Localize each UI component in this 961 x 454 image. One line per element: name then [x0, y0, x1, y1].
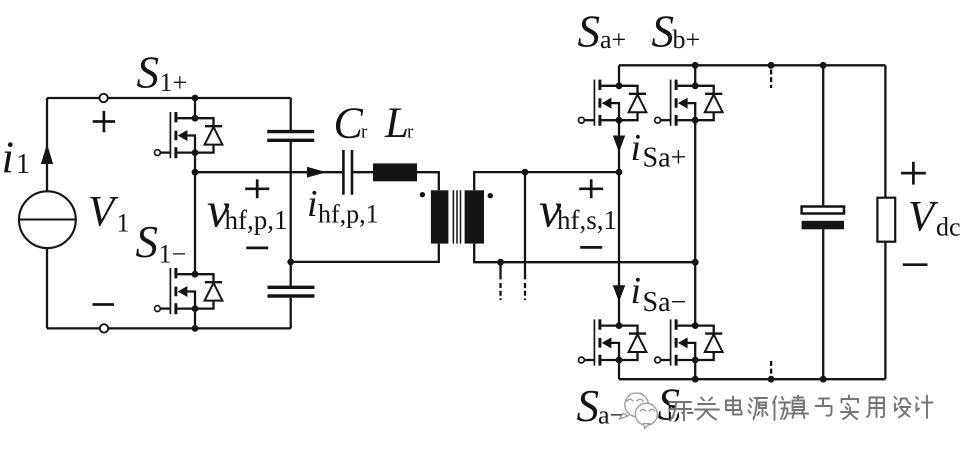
wire S1+ drain [194, 98, 196, 118]
wire leg b lower [694, 360, 696, 379]
junction dot top rail continuation [768, 62, 775, 69]
capacitor upper plates [267, 132, 314, 141]
junction dot bottom rail continuation [768, 376, 775, 383]
wire S1- source to bottom rail [194, 309, 196, 329]
svg-text:i: i [2, 132, 15, 182]
wire left vertical [46, 98, 48, 328]
minus sign V1 [93, 303, 115, 306]
wire Lr to transformer [417, 172, 439, 190]
wire bottom tap stub [499, 262, 501, 279]
polarity dot primary [420, 192, 425, 197]
wire split-cap leg lower [290, 298, 292, 329]
inductor Lr [373, 163, 417, 181]
svg-text:i: i [631, 127, 642, 169]
wire leg a upper [618, 65, 620, 86]
wire split-cap leg middle [290, 142, 292, 286]
junction dot bottom rail [192, 325, 199, 332]
svg-text:S: S [652, 7, 675, 57]
svg-text:b+: b+ [673, 25, 701, 54]
source V1 [19, 191, 76, 248]
wire primary return [291, 244, 439, 262]
svg-text:a+: a+ [600, 25, 626, 54]
svg-text:i: i [307, 183, 318, 225]
terminal circle bottom-left [100, 324, 108, 332]
svg-text:V: V [88, 189, 119, 236]
wire output cap leg lower [822, 229, 824, 379]
wire split-cap leg upper [290, 98, 292, 130]
svg-text:S: S [136, 217, 159, 267]
svg-text:V: V [908, 194, 939, 241]
plus sign vhfs1 [579, 179, 603, 198]
svg-text:S: S [577, 381, 600, 431]
transistor S1- [155, 268, 223, 314]
wire load leg lower [884, 242, 886, 380]
junction dot bottom rail leg b [692, 376, 699, 383]
wire leg a lower [618, 360, 620, 379]
svg-text:Sa−: Sa− [643, 287, 687, 318]
wire bottom continuation dashed [770, 361, 772, 375]
junction dot cap midpoint [287, 259, 294, 266]
svg-text:1−: 1− [159, 239, 187, 268]
svg-text:r: r [407, 121, 414, 142]
wire top-left rail [47, 97, 291, 99]
junction dot secondary bottom tap [497, 259, 504, 266]
capacitor lower plates [268, 287, 315, 296]
svg-text:a−: a− [598, 401, 624, 430]
transformer primary winding [431, 190, 449, 243]
current arrow iSa- [613, 285, 625, 302]
transistor Sb- [655, 319, 723, 365]
resistor load [877, 198, 895, 242]
wire right bottom rail [619, 378, 885, 380]
transistor Sa- [579, 319, 647, 365]
capacitor output top plate [802, 207, 844, 214]
wire output cap leg upper [822, 65, 824, 205]
svg-text:L: L [384, 100, 409, 147]
wire phase tap dashed [524, 283, 526, 300]
wire bottom-left rail [47, 327, 291, 329]
junction dot top rail cap leg [820, 62, 827, 69]
minus sign vhfp1 [246, 247, 268, 250]
plus sign vhfp1 [245, 179, 269, 198]
wire leg b upper [694, 65, 696, 86]
transistor Sa+ [579, 80, 647, 126]
junction dot top rail [192, 95, 199, 102]
plus sign Vdc [901, 162, 926, 185]
wire secondary top [474, 172, 619, 190]
junction dot midpoint [192, 169, 199, 176]
svg-text:1+: 1+ [160, 68, 188, 97]
terminal circle top-left [99, 94, 107, 102]
minus sign vhfs1 [580, 246, 602, 249]
current arrow ihfp1 [307, 167, 327, 178]
transistor S1+ [155, 112, 223, 158]
svg-text:dc: dc [936, 213, 961, 242]
wire right top rail [619, 64, 885, 66]
svg-text:C: C [334, 99, 364, 148]
capacitor output bottom plate [802, 221, 844, 230]
junction dot bottom rail cap leg [820, 376, 827, 383]
minus sign Vdc [903, 263, 928, 266]
wire phase tap vertical [524, 172, 526, 279]
junction dot top rail leg b [692, 62, 699, 69]
svg-text:r: r [361, 121, 368, 142]
transformer secondary winding [465, 190, 484, 243]
junction dot node b [692, 259, 699, 266]
plus sign V1 [93, 111, 115, 132]
wire Cr to Lr [353, 171, 373, 173]
transistor Sb+ [655, 80, 723, 126]
svg-text:S: S [578, 7, 601, 57]
watermark logo bubble 2 [635, 403, 657, 428]
junction dot node a [616, 169, 623, 176]
current arrow iSa+ [613, 136, 625, 153]
svg-text:S: S [137, 47, 160, 97]
svg-text:hf,s,1: hf,s,1 [557, 205, 617, 235]
wire bottom tap dashed [499, 283, 501, 300]
watermark logo bubble 1 [620, 393, 649, 419]
wire leg b middle [694, 120, 696, 325]
junction dot secondary top tap [522, 169, 529, 176]
current arrow i1 [41, 144, 53, 164]
polarity dot secondary [488, 193, 493, 198]
svg-text:hf,p,1: hf,p,1 [318, 200, 379, 229]
wire load leg upper [884, 65, 886, 197]
capacitor Cr plates [343, 150, 352, 195]
svg-text:hf,p,1: hf,p,1 [225, 205, 288, 235]
watermark text [669, 396, 934, 423]
wire hf mid [195, 171, 342, 173]
svg-text:1: 1 [117, 209, 130, 238]
wire S1+ source to S1- drain [194, 153, 196, 275]
wire top continuation dashed [770, 70, 772, 89]
svg-text:Sa+: Sa+ [643, 143, 687, 174]
svg-text:i: i [631, 270, 642, 312]
transformer core [453, 190, 460, 243]
wire leg a middle [618, 120, 620, 325]
wire secondary bottom [474, 244, 695, 263]
svg-text:1: 1 [16, 149, 30, 180]
